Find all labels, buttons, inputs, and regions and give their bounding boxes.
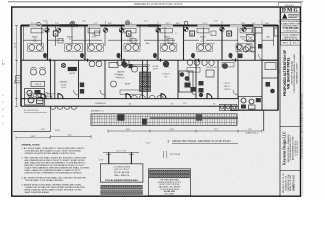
sheet no divider bbox=[280, 169, 301, 171]
row1 room labels bbox=[32, 32, 271, 45]
detail1 box bbox=[101, 164, 143, 182]
right column lower fixtures bbox=[266, 82, 275, 93]
svg-text:A4: A4 bbox=[2, 63, 5, 66]
right exterior wall bbox=[277, 25, 279, 111]
left exterior wall bbox=[20, 25, 22, 106]
title block header cell above border bbox=[279, 3, 302, 7]
detail2 hatch rows bbox=[150, 170, 190, 173]
utility label bbox=[224, 83, 231, 91]
row2 dividers bbox=[51, 60, 263, 110]
wc cluster right of stair bbox=[179, 71, 196, 92]
reception counter dark bbox=[68, 67, 77, 71]
chase side text bbox=[153, 66, 160, 71]
DMG triangle logo bbox=[282, 13, 287, 18]
left outside stoop bbox=[16, 76, 22, 83]
exam room mid labels bbox=[114, 67, 170, 79]
detail1 hatch rows bbox=[101, 185, 143, 189]
door scallops row bbox=[131, 95, 163, 98]
left dim line bbox=[16, 25, 18, 106]
svg-text:|5: |5 bbox=[2, 123, 3, 125]
bottom wall center bbox=[150, 117, 238, 119]
svg-text:|3: |3 bbox=[2, 109, 3, 111]
row1 minor partitions bbox=[23, 25, 273, 60]
dark cluster x198 bbox=[199, 81, 204, 97]
top dimension texts bbox=[31, 21, 270, 26]
row1 door thresholds bbox=[50, 59, 236, 62]
corridor door arcs dark bbox=[41, 94, 212, 99]
grid bubbles bbox=[45, 27, 246, 32]
row1 major unit dividers bbox=[48, 25, 256, 60]
row1 sub labels bbox=[34, 39, 245, 41]
left lower boundary bbox=[21, 105, 51, 107]
lower-left dim line 2 bbox=[16, 137, 50, 139]
corridor bottom wall bbox=[51, 105, 239, 107]
window gaps on top wall bbox=[30, 24, 264, 27]
top wall dark segments bbox=[60, 24, 78, 26]
grid bubble mid bbox=[61, 63, 65, 67]
row1 B boxes dark bbox=[53, 31, 231, 36]
detail1 studs bbox=[108, 152, 110, 163]
above-wall grid bubbles bbox=[37, 21, 188, 26]
mid dark bubbles bbox=[123, 61, 228, 68]
row1 furniture rects bbox=[31, 29, 252, 33]
sw bathroom cluster bbox=[25, 89, 45, 106]
keystone design block rotated text bbox=[282, 131, 299, 165]
desk rect right bbox=[206, 70, 214, 77]
right mid rect bbox=[265, 63, 276, 70]
detail2 leaders bbox=[163, 151, 165, 158]
scan top edge line bbox=[8, 1, 303, 3]
se walls bbox=[230, 109, 278, 111]
xray table bbox=[109, 63, 118, 68]
mid text block bbox=[117, 71, 131, 86]
svg-text:PREPARED BY AN ARCHITECTURAL O: PREPARED BY AN ARCHITECTURAL OFFICE bbox=[134, 3, 183, 6]
title strip divider bbox=[279, 7, 281, 196]
sheet number block bbox=[283, 172, 296, 193]
left margin tiny marks bbox=[2, 95, 3, 125]
row1 closet marks bbox=[58, 31, 216, 43]
extra mid toilet pairs bbox=[117, 60, 214, 65]
corridor top wall bbox=[21, 98, 238, 100]
DMG logo side text bbox=[288, 13, 299, 15]
row1 toilets dark bbox=[43, 53, 233, 58]
plumbing chase hatched bbox=[140, 60, 151, 98]
svg-text:KEYSTONE DESIGN LLC - ARCHITEC: KEYSTONE DESIGN LLC - ARCHITECTURAL DWG … bbox=[300, 93, 303, 158]
ramp hatch ticks bbox=[91, 114, 237, 126]
scan noise overlay bbox=[0, 0, 1, 1]
row2 door arcs bbox=[46, 90, 238, 99]
right column mid divider bbox=[262, 59, 278, 61]
entry door scallops bbox=[50, 106, 77, 109]
waiting room label bbox=[60, 81, 68, 90]
outside right trim line bbox=[302, 55, 304, 196]
office chairs pair bbox=[30, 67, 46, 75]
se bathroom cluster bbox=[239, 97, 263, 111]
chairs pair mid2 bbox=[131, 65, 150, 72]
lower-left dim line bbox=[51, 136, 92, 138]
mid casework right bbox=[222, 63, 234, 67]
bottom dim line main bbox=[108, 130, 262, 132]
mid room casework bbox=[120, 90, 142, 94]
wc fixtures dark left bbox=[80, 83, 84, 94]
corridor door tags bbox=[129, 104, 216, 106]
svg-text:|4: |4 bbox=[2, 116, 3, 118]
detail1 top plate line bbox=[103, 151, 139, 153]
grid tick marks above wall bbox=[47, 21, 262, 25]
waiting chairs row bbox=[28, 94, 41, 98]
row1 bottom wall bbox=[21, 59, 278, 61]
svg-text:|2: |2 bbox=[2, 102, 3, 104]
svg-text:1: 1 bbox=[2, 61, 4, 63]
sheet border frame bbox=[12, 7, 301, 196]
stor text lines bbox=[162, 74, 169, 79]
top exterior wall bbox=[21, 24, 278, 26]
revision mini row bbox=[281, 41, 301, 46]
svg-text:DWG A-2: DWG A-2 bbox=[285, 4, 295, 7]
detail2 box bbox=[149, 169, 191, 196]
ramp band bbox=[91, 114, 237, 126]
DMG logo box bbox=[281, 7, 301, 41]
right office desk bbox=[237, 28, 278, 53]
office desk bbox=[31, 81, 45, 86]
chairs pair mid1 bbox=[89, 61, 102, 67]
project title rotated text bbox=[283, 50, 299, 96]
svg-text:|1: |1 bbox=[2, 95, 3, 97]
row1 bathroom partition hlines bbox=[23, 39, 273, 41]
row1 door arcs bbox=[44, 54, 265, 60]
top wall inner face line bbox=[21, 26, 278, 28]
row1 vanity sink pairs bbox=[28, 44, 253, 51]
keystone divider bbox=[280, 125, 301, 127]
washer dryer row bbox=[220, 104, 237, 110]
exam mid fixtures bbox=[187, 60, 200, 72]
ramp dark rects bbox=[117, 114, 124, 120]
mid dark marks bbox=[122, 62, 126, 66]
